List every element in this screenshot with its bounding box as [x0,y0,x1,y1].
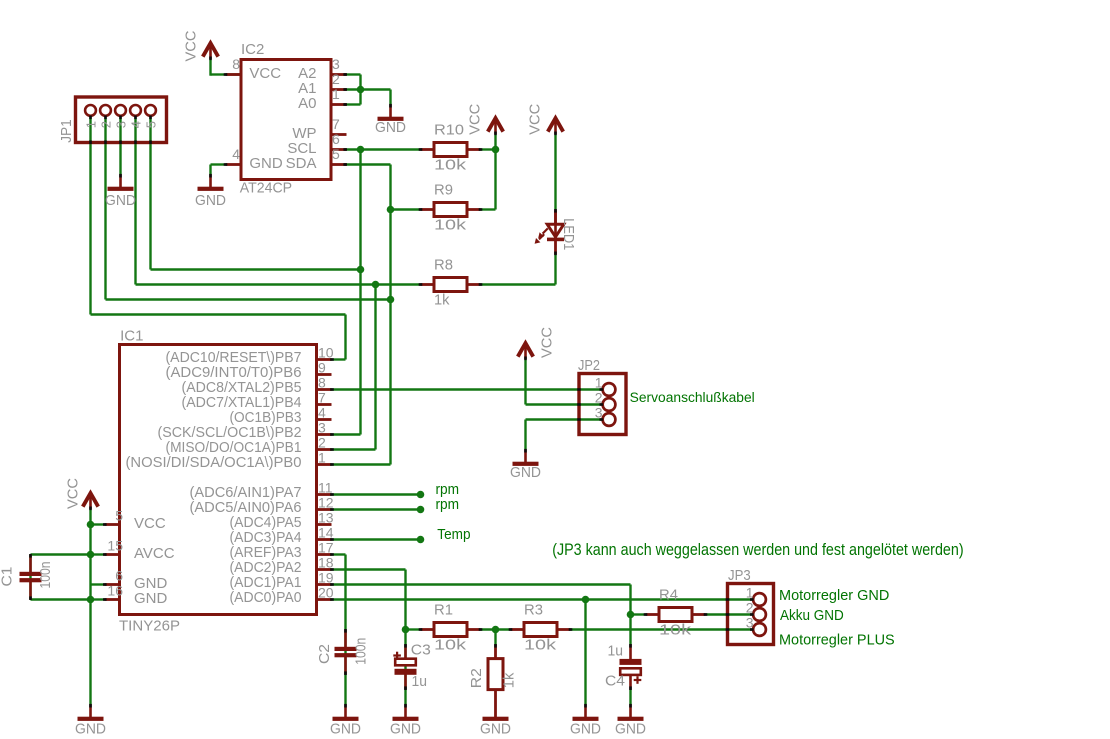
svg-text:1: 1 [318,450,326,466]
svg-text:1: 1 [595,375,603,391]
svg-text:VCC: VCC [183,30,200,61]
svg-text:2: 2 [99,121,114,128]
svg-text:VCC: VCC [65,478,82,509]
svg-text:15: 15 [107,538,123,554]
svg-text:1: 1 [332,86,340,102]
svg-text:GND: GND [615,720,646,737]
svg-text:JP2: JP2 [578,357,600,374]
svg-text:10k: 10k [434,637,467,654]
svg-text:A0: A0 [298,95,316,112]
svg-text:VCC: VCC [134,515,166,532]
svg-text:IC1: IC1 [120,327,143,344]
svg-text:8: 8 [318,375,326,391]
svg-text:GND: GND [249,155,283,172]
svg-text:14: 14 [318,525,334,541]
svg-text:9: 9 [318,360,326,376]
svg-text:TINY26P: TINY26P [119,618,180,635]
svg-text:1u: 1u [412,673,428,690]
svg-text:VCC: VCC [526,104,543,135]
svg-text:GND: GND [195,192,226,209]
svg-text:C1: C1 [0,567,16,587]
svg-text:3: 3 [332,56,340,72]
svg-text:5: 5 [332,146,340,162]
svg-text:Temp: Temp [437,526,470,543]
svg-text:LED1: LED1 [560,218,577,250]
svg-text:GND: GND [105,192,136,209]
svg-text:(JP3 kann auch weggelassen wer: (JP3 kann auch weggelassen werden und fe… [552,540,963,559]
svg-text:2: 2 [332,71,340,87]
svg-text:100n: 100n [37,562,54,589]
svg-text:SDA: SDA [286,155,317,172]
svg-text:10k: 10k [659,622,692,639]
svg-text:1k: 1k [500,672,517,688]
svg-text:6: 6 [332,131,340,147]
svg-text:12: 12 [318,495,334,511]
svg-text:Servoanschlußkabel: Servoanschlußkabel [630,390,755,405]
svg-text:5: 5 [144,121,159,128]
svg-text:Motorregler GND: Motorregler GND [779,587,889,604]
svg-text:R10: R10 [434,122,464,139]
svg-text:(NOSI/DI/SDA/OC1A\)PB0: (NOSI/DI/SDA/OC1A\)PB0 [126,454,302,471]
svg-text:GND: GND [75,720,106,737]
svg-text:16: 16 [107,583,123,599]
svg-text:C2: C2 [316,644,333,664]
svg-text:VCC: VCC [249,65,281,82]
svg-text:8: 8 [232,56,240,72]
svg-text:R8: R8 [434,257,453,274]
svg-text:7: 7 [318,390,326,406]
svg-text:3: 3 [746,615,754,631]
svg-text:VCC: VCC [538,327,555,358]
svg-text:JP3: JP3 [728,567,751,584]
svg-text:2: 2 [318,435,326,451]
svg-text:GND: GND [134,590,168,607]
svg-text:11: 11 [318,480,333,496]
svg-text:1: 1 [746,585,754,601]
svg-text:GND: GND [510,464,541,481]
svg-text:GND: GND [570,720,601,737]
svg-text:AVCC: AVCC [134,545,175,562]
svg-text:GND: GND [330,720,361,737]
svg-text:19: 19 [318,570,334,586]
svg-text:1: 1 [84,121,99,128]
svg-text:1k: 1k [434,292,450,309]
svg-text:JP1: JP1 [58,119,75,143]
svg-text:3: 3 [318,420,326,436]
svg-text:7: 7 [332,116,340,132]
svg-text:2: 2 [595,390,603,406]
svg-text:GND: GND [390,720,421,737]
svg-text:4: 4 [232,146,240,162]
svg-text:20: 20 [318,585,334,601]
svg-text:R2: R2 [468,668,485,688]
svg-text:GND: GND [480,720,511,737]
svg-text:R3: R3 [524,602,543,619]
svg-text:AT24CP: AT24CP [240,180,292,197]
svg-text:6: 6 [115,568,123,584]
svg-text:13: 13 [318,510,334,526]
svg-text:IC2: IC2 [241,41,264,58]
svg-text:VCC: VCC [467,104,484,135]
svg-text:2: 2 [746,600,754,616]
svg-text:C4: C4 [605,673,625,690]
svg-text:1u: 1u [608,642,624,659]
svg-text:10k: 10k [434,157,467,174]
svg-text:17: 17 [318,540,334,556]
svg-text:4: 4 [129,121,144,128]
svg-text:R1: R1 [434,602,453,619]
svg-text:rpm: rpm [436,496,460,513]
svg-text:C3: C3 [411,641,431,658]
svg-text:4: 4 [318,405,326,421]
svg-text:Motorregler PLUS: Motorregler PLUS [779,631,895,648]
svg-text:3: 3 [114,121,129,128]
svg-text:Akku GND: Akku GND [780,607,844,624]
svg-text:(ADC0)PA0: (ADC0)PA0 [230,589,302,606]
svg-text:10: 10 [318,345,334,361]
svg-text:100n: 100n [353,638,370,665]
svg-text:3: 3 [595,405,603,421]
svg-text:R9: R9 [434,182,453,199]
svg-text:18: 18 [318,555,334,571]
svg-text:GND: GND [375,119,406,136]
svg-text:10k: 10k [524,637,557,654]
svg-text:R4: R4 [659,587,678,604]
svg-text:5: 5 [115,508,123,524]
svg-text:10k: 10k [434,217,467,234]
